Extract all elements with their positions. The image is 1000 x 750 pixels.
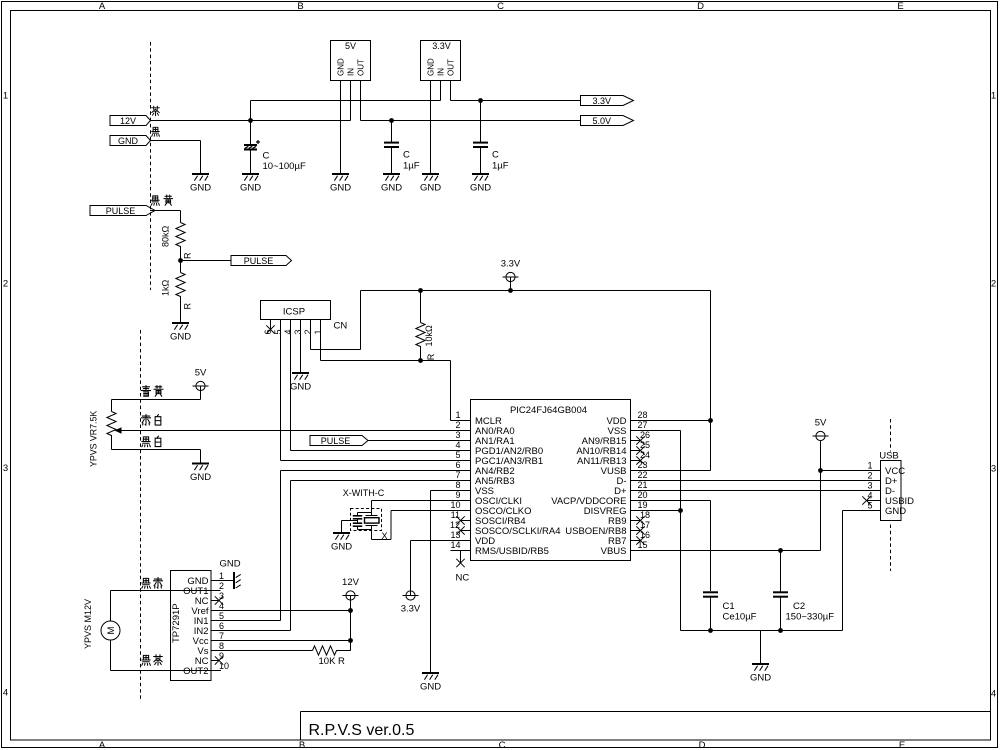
- svg-text:R: R: [426, 353, 436, 360]
- svg-text:5V: 5V: [345, 41, 356, 51]
- wire harness dashed boundary right (USB): [890, 419, 892, 452]
- svg-text:OUT: OUT: [357, 59, 366, 76]
- wire color label 黒茶: [142, 655, 163, 666]
- ground symbol (crystal): [331, 533, 352, 553]
- svg-text:6: 6: [455, 460, 460, 470]
- junction 5.0V rail / cap: [389, 118, 394, 123]
- svg-text:5: 5: [455, 450, 460, 460]
- wire PIC pin28 VDD to 3.3V rail: [631, 291, 711, 471]
- connector USB: [861, 450, 915, 520]
- wire ICSP pin1 MCLR line: [321, 320, 471, 421]
- svg-text:OUT2: OUT2: [183, 666, 208, 677]
- svg-text:2: 2: [991, 279, 996, 290]
- svg-text:10K R: 10K R: [319, 656, 346, 667]
- wire PIC pin7 AN5 to TP IN2: [291, 481, 471, 631]
- wire 5V reg OUT to 5.0V rail: [361, 81, 581, 121]
- svg-text:22: 22: [638, 470, 648, 480]
- svg-text:GND: GND: [240, 183, 261, 194]
- svg-text:GND: GND: [470, 183, 491, 194]
- svg-text:26: 26: [640, 430, 650, 440]
- crystal X X-WITH-C resonator: [343, 488, 388, 541]
- svg-text:3: 3: [293, 329, 303, 334]
- ground symbol (GND input): [190, 174, 211, 194]
- ground symbol (pot): [190, 464, 211, 484]
- power symbol 3.3V (rail): [501, 259, 521, 291]
- svg-text:A: A: [99, 740, 106, 750]
- power symbol 5V (VBUS): [813, 418, 829, 441]
- svg-text:3.3V: 3.3V: [592, 96, 611, 106]
- ground symbol (C 10~100uF): [240, 174, 261, 194]
- svg-text:1: 1: [313, 329, 323, 334]
- connector CN ICSP: [261, 301, 348, 335]
- svg-text:5V: 5V: [195, 368, 207, 379]
- wire pot wiper to PIC pin2 AN0: [121, 430, 471, 432]
- svg-text:X-WITH-C: X-WITH-C: [343, 488, 385, 498]
- regulator 3.3V: [421, 41, 461, 81]
- svg-text:3: 3: [991, 464, 996, 475]
- svg-text:D: D: [699, 740, 706, 750]
- ground symbol sideways (TP GND): [219, 559, 240, 590]
- wire TP IN1: [211, 620, 281, 622]
- ground symbol (3.3V reg): [420, 174, 441, 194]
- svg-text:4: 4: [283, 329, 293, 334]
- wire PIC pin23 VUSB: [631, 470, 711, 472]
- svg-text:12V: 12V: [342, 577, 360, 588]
- wire USB GND down: [843, 511, 881, 631]
- wire 5V reg IN pin: [350, 81, 352, 121]
- resistor R 10kΩ pullup: [416, 291, 436, 361]
- svg-text:3.3V: 3.3V: [401, 604, 421, 615]
- svg-text:B: B: [297, 1, 303, 12]
- wire PIC pin20 VDDCORE to C1: [631, 501, 711, 592]
- capacitor C 10~100uF electrolytic: [244, 121, 306, 174]
- wire GND input to ground: [150, 141, 201, 174]
- svg-text:1: 1: [991, 91, 996, 102]
- ground symbol (ICSP): [290, 373, 311, 393]
- wire 12V riser to 3.3V regulator input: [251, 101, 441, 121]
- no-connect X USB pin4 USBID: [862, 496, 870, 504]
- svg-text:21: 21: [638, 480, 648, 490]
- svg-text:C: C: [403, 150, 410, 161]
- wire PIC pin27 VSS down: [631, 431, 681, 631]
- MCU U1 PIC24FJ64GB004: [450, 400, 651, 561]
- svg-text:R: R: [183, 252, 193, 259]
- wire 1k to ground: [180, 311, 182, 323]
- wire ICSP pin2 to 3.3V rail: [311, 291, 361, 350]
- svg-text:D: D: [697, 1, 704, 12]
- svg-text:7: 7: [219, 631, 224, 641]
- wire color label 黒赤: [142, 578, 163, 589]
- svg-text:X: X: [382, 531, 388, 541]
- svg-text:6: 6: [219, 621, 224, 631]
- wire color label 黒: [152, 127, 160, 136]
- svg-text:1: 1: [3, 91, 8, 102]
- svg-text:3: 3: [3, 463, 8, 474]
- wire harness dashed boundary left-top: [150, 42, 152, 290]
- net flag 5.0V output: [581, 116, 634, 126]
- svg-text:1: 1: [867, 461, 872, 471]
- wire color label 黒黄: [151, 195, 172, 205]
- net flag 12V input: [110, 116, 151, 126]
- wire TP Vcc to 12V: [211, 611, 351, 651]
- svg-text:28: 28: [638, 410, 648, 420]
- wire PIC pin22 D- to USB: [631, 480, 881, 482]
- svg-text:C: C: [492, 150, 499, 161]
- wire PIC pin21 D+ to USB: [631, 490, 881, 492]
- wire PIC pin8 VSS to ground: [431, 491, 471, 673]
- no-connect X PIC pin24: [636, 456, 644, 464]
- junction C1/ground rail: [708, 628, 713, 633]
- svg-text:GND: GND: [330, 183, 351, 194]
- wire crystal to ground: [342, 521, 358, 533]
- wire 5V reg GND pin to ground: [340, 81, 342, 174]
- junction 3.3V rail / pullup: [418, 288, 423, 293]
- wire bottom ground rail: [681, 630, 843, 632]
- no-connect X PIC pin14: [456, 559, 464, 567]
- no-connect X PIC pin12: [456, 526, 464, 534]
- resistor R 10K (Vs): [301, 646, 351, 667]
- svg-text:C: C: [499, 740, 506, 750]
- svg-text:IN: IN: [437, 68, 446, 76]
- wire color label 青黄: [141, 386, 163, 397]
- svg-text:GND: GND: [290, 382, 311, 393]
- no-connect X PIC pin11: [456, 516, 464, 524]
- svg-text:C1: C1: [723, 601, 735, 612]
- svg-text:1: 1: [455, 410, 460, 420]
- svg-text:ICSP: ICSP: [283, 307, 305, 318]
- potentiometer VR YPVS VR7.5K: [89, 400, 122, 468]
- wire 3.3V reg IN pin: [440, 81, 442, 101]
- svg-text:GND: GND: [381, 183, 402, 194]
- svg-text:18: 18: [640, 510, 650, 520]
- svg-text:2: 2: [303, 329, 313, 334]
- svg-text:GND: GND: [219, 559, 240, 570]
- wire color label 黒白: [142, 436, 161, 447]
- no-connect X TP pin9: [215, 656, 223, 664]
- wire ICSP pin5 to PIC pin5 PGC1: [281, 320, 471, 461]
- svg-text:GND: GND: [420, 682, 441, 693]
- svg-text:4: 4: [455, 440, 460, 450]
- no-connect X PIC pin17: [636, 526, 644, 534]
- svg-text:PULSE: PULSE: [321, 436, 351, 446]
- driver IC TP7291P: [171, 571, 230, 681]
- capacitor C 1uF (3.3V rail): [473, 101, 509, 174]
- svg-text:GND: GND: [885, 506, 906, 517]
- svg-text:E: E: [897, 1, 903, 12]
- wire ground rail tap: [760, 631, 762, 664]
- svg-text:GND: GND: [750, 673, 771, 684]
- svg-text:10kΩ: 10kΩ: [424, 325, 434, 347]
- svg-text:5: 5: [219, 611, 224, 621]
- svg-text:3.3V: 3.3V: [501, 259, 521, 270]
- wire pot bottom to ground: [112, 450, 201, 464]
- svg-text:8: 8: [455, 480, 460, 490]
- wire harness dashed boundary left-bottom: [140, 330, 142, 699]
- net flag PULSE output: [231, 256, 292, 266]
- net flag 3.3V output: [581, 96, 634, 106]
- wire color label 茶: [152, 106, 160, 116]
- wire motor to OUT1: [111, 591, 221, 622]
- wire PIC pin13 VDD to 3.3V: [411, 541, 471, 596]
- svg-text:YPVS M12V: YPVS M12V: [83, 599, 93, 649]
- svg-text:GND: GND: [190, 183, 211, 194]
- capacitor C1 Ce10uF: [703, 592, 757, 630]
- svg-text:2: 2: [455, 420, 460, 430]
- svg-text:12V: 12V: [120, 116, 136, 126]
- svg-text:3: 3: [867, 481, 872, 491]
- net flag PULSE input: [90, 206, 155, 216]
- svg-text:14: 14: [450, 540, 460, 550]
- svg-text:PULSE: PULSE: [106, 206, 136, 216]
- wire TP Vs: [211, 650, 301, 652]
- svg-text:E: E: [899, 740, 905, 750]
- svg-text:Ce10µF: Ce10µF: [723, 612, 757, 623]
- power symbol 12V: [342, 577, 360, 611]
- svg-text:CN: CN: [334, 320, 348, 331]
- svg-text:IN: IN: [347, 68, 356, 76]
- junction divider node: [178, 258, 183, 263]
- junction 3.3V rail / power symbol: [508, 288, 513, 293]
- no-connect X PIC pin26: [636, 436, 644, 444]
- junction 5V/USB VCC: [818, 468, 823, 473]
- wire color label 赤白: [141, 415, 160, 426]
- svg-text:3.3V: 3.3V: [432, 41, 451, 51]
- svg-text:7: 7: [455, 470, 460, 480]
- svg-text:C2: C2: [793, 601, 805, 612]
- wire ICSP pin3 to ground: [300, 320, 302, 373]
- svg-text:NC: NC: [456, 573, 470, 584]
- svg-text:150~330µF: 150~330µF: [786, 612, 835, 623]
- svg-text:1kΩ: 1kΩ: [161, 279, 171, 296]
- no-connect X PIC pin18: [636, 516, 644, 524]
- svg-text:A: A: [99, 1, 106, 12]
- svg-text:1µF: 1µF: [403, 161, 420, 172]
- wire 5V to USB VCC: [821, 470, 881, 472]
- svg-text:GND: GND: [331, 542, 352, 553]
- junction VBUS/C2: [778, 548, 783, 553]
- wire TP pin1 GND: [211, 580, 234, 582]
- capacitor C2 150~330uF: [773, 551, 834, 631]
- no-connect X PIC pin25: [636, 446, 644, 454]
- svg-text:PULSE: PULSE: [244, 256, 274, 266]
- wire divider to PULSE out flag: [181, 260, 232, 262]
- power symbol 5V (pot): [193, 368, 209, 400]
- wire PULSE input to divider: [150, 210, 181, 212]
- ground symbol (main): [750, 664, 771, 684]
- svg-text:R: R: [183, 303, 193, 310]
- svg-text:B: B: [299, 740, 305, 750]
- no-connect X TP pin3: [215, 596, 223, 604]
- svg-text:19: 19: [638, 500, 648, 510]
- svg-text:27: 27: [638, 420, 648, 430]
- junction Vref/12V: [348, 608, 353, 613]
- wire PIC pin9 OSCI to crystal: [372, 501, 471, 516]
- junction Vcc/12V: [348, 638, 353, 643]
- no-connect X PIC pin16: [636, 536, 644, 544]
- regulator 5V: [331, 41, 371, 81]
- svg-text:GND: GND: [190, 472, 211, 483]
- junction DISVREG/VSS: [678, 508, 683, 513]
- junction 12V/cap: [248, 118, 253, 123]
- svg-text:8: 8: [219, 641, 224, 651]
- wire 5V to pot top: [112, 399, 201, 401]
- wire TP IN2: [211, 630, 291, 632]
- wire 3.3V reg OUT to 3.3V rail: [451, 81, 581, 101]
- svg-text:GND: GND: [420, 183, 441, 194]
- svg-text:2: 2: [3, 279, 8, 290]
- ground symbol (PIC VSS): [420, 673, 441, 693]
- svg-text:5V: 5V: [815, 418, 827, 429]
- svg-text:RMS/USBID/RB5: RMS/USBID/RB5: [475, 546, 549, 557]
- wire 3.3V reg GND pin to ground: [430, 81, 432, 174]
- svg-text:C: C: [263, 151, 270, 162]
- net flag PULSE to PIC pin3 AN1: [310, 436, 471, 446]
- svg-text:M: M: [106, 626, 117, 634]
- resistor R 1kΩ: [161, 261, 193, 311]
- ground symbol (C 1uF 5V): [381, 174, 402, 194]
- capacitor C 1uF (5V rail): [384, 121, 420, 174]
- svg-text:R.P.V.S ver.0.5: R.P.V.S ver.0.5: [309, 722, 415, 739]
- svg-text:20: 20: [638, 490, 648, 500]
- svg-text:5.0V: 5.0V: [592, 116, 611, 126]
- svg-text:9: 9: [455, 490, 460, 500]
- wire PIC pin15 VBUS to 5V: [631, 441, 821, 551]
- junction 3.3V rail / cap: [478, 98, 483, 103]
- svg-text:1: 1: [219, 571, 224, 581]
- svg-text:10: 10: [450, 500, 460, 510]
- svg-text:GND: GND: [118, 136, 139, 146]
- title block: [301, 712, 991, 741]
- svg-text:80kΩ: 80kΩ: [161, 225, 171, 247]
- svg-text:YPVS VR7.5K: YPVS VR7.5K: [89, 411, 99, 467]
- resistor R 80kΩ: [161, 211, 193, 261]
- junction C2/ground rail: [778, 628, 783, 633]
- svg-text:USB: USB: [879, 450, 899, 461]
- svg-text:C: C: [497, 1, 504, 12]
- motor M YPVS M12V: [83, 599, 120, 649]
- svg-text:2: 2: [867, 471, 872, 481]
- wire ICSP pin4 to PIC pin4 PGD1: [291, 320, 471, 451]
- svg-text:GND: GND: [170, 332, 191, 343]
- svg-text:GND: GND: [336, 58, 345, 76]
- wire TP Vref to 12V: [211, 610, 351, 612]
- ground symbol (divider): [170, 323, 191, 343]
- no-connect X ICSP pin6: [266, 325, 274, 333]
- svg-text:TP7291P: TP7291P: [171, 603, 182, 643]
- wire PIC pin14 RB5 no-connect: [461, 551, 471, 563]
- svg-text:3: 3: [455, 430, 460, 440]
- wire 3.3V rail (MCU): [361, 290, 711, 292]
- junction MCLR / pullup: [418, 358, 423, 363]
- wire 12V rail: [150, 120, 351, 122]
- wire PIC pin19 DISVREG: [631, 510, 681, 512]
- svg-text:OUT: OUT: [447, 59, 456, 76]
- net flag GND input: [110, 136, 151, 146]
- wire motor to OUT2: [111, 640, 222, 671]
- wire PIC pin10 OSCO to crystal: [372, 511, 471, 540]
- svg-text:VBUS: VBUS: [601, 546, 627, 557]
- power symbol 3.3V (PIC VDD): [401, 591, 421, 615]
- ground symbol (C 1uF 3.3V): [470, 174, 491, 194]
- svg-text:2: 2: [219, 581, 224, 591]
- svg-text:GND: GND: [426, 58, 435, 76]
- svg-text:4: 4: [3, 688, 8, 699]
- wire PIC pin6 AN4 to TP IN1: [281, 471, 471, 621]
- svg-text:10~100µF: 10~100µF: [263, 161, 306, 172]
- svg-text:4: 4: [991, 689, 996, 700]
- junction VDD 3.3V: [708, 418, 713, 423]
- svg-text:PIC24FJ64GB004: PIC24FJ64GB004: [510, 405, 587, 416]
- ground symbol (5V reg): [330, 174, 351, 194]
- svg-text:1µF: 1µF: [492, 161, 509, 172]
